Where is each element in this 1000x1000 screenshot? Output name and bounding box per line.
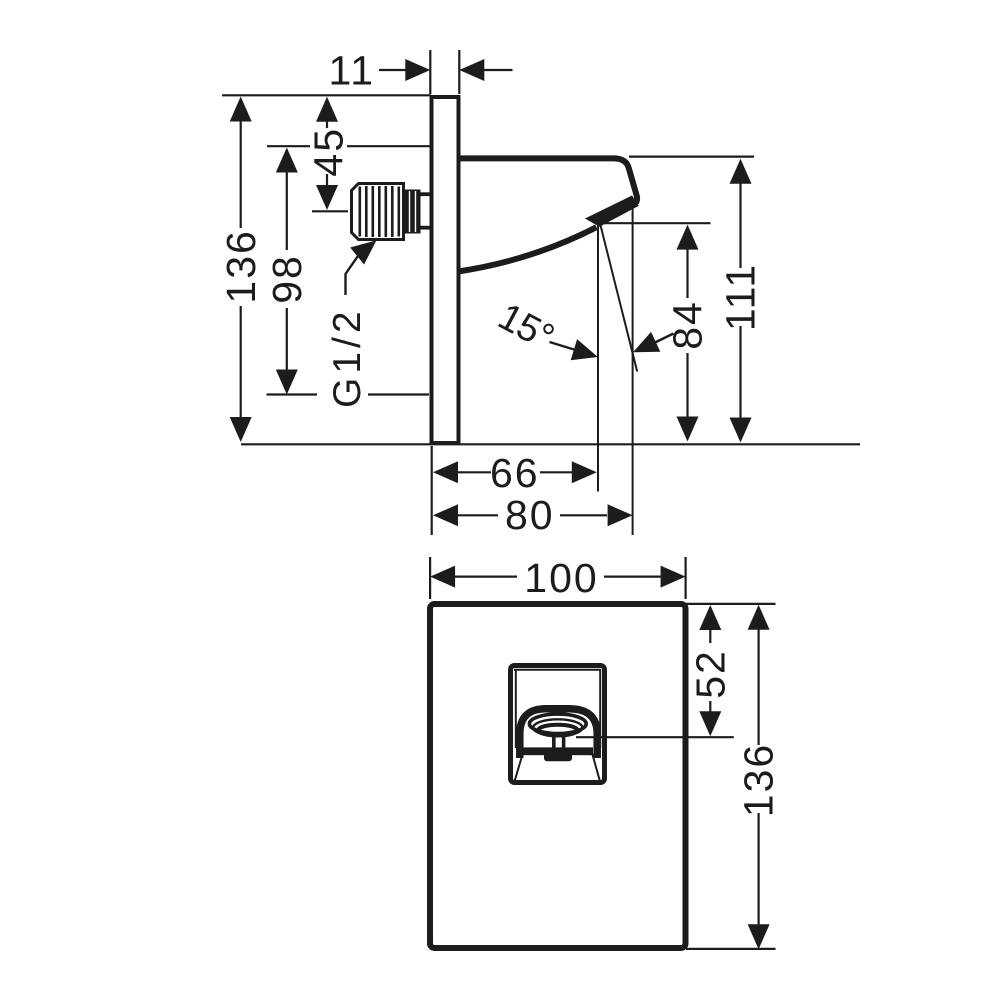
- label 15 degrees with leader arrows: [491, 296, 673, 368]
- spout outlet frame (front view): [511, 666, 605, 783]
- dimension 84: [665, 225, 711, 442]
- spout outlet lip (filled wedge): [585, 196, 639, 227]
- nipple collar: [405, 190, 421, 234]
- bottom extension line right: [686, 948, 776, 950]
- thread lines: [360, 186, 399, 237]
- aerator ellipse outer: [529, 714, 586, 733]
- extension line below plate: [431, 446, 433, 535]
- svg-text:111: 111: [718, 263, 764, 331]
- slanted 15 degree stream line: [600, 225, 637, 372]
- aerator ellipse inner: [538, 725, 577, 736]
- svg-text:52: 52: [687, 649, 733, 699]
- svg-text:15°: 15°: [491, 296, 560, 359]
- svg-text:100: 100: [524, 555, 598, 601]
- svg-text:84: 84: [665, 300, 711, 350]
- water stream vertical line right: [632, 206, 634, 535]
- water stream vertical line left: [597, 226, 599, 492]
- extension line for 111: [629, 156, 754, 158]
- nipple mounting nubs: [421, 192, 430, 229]
- dimension 100: [430, 555, 685, 601]
- baseline (wall line bottom): [241, 443, 860, 445]
- spout underside curve: [458, 227, 597, 271]
- dimension 136 (left): [218, 97, 264, 443]
- svg-text:66: 66: [490, 450, 540, 496]
- aerator base bar: [522, 747, 593, 755]
- dimension 136 (right): [736, 605, 782, 949]
- spout body top and front face: [458, 158, 637, 204]
- top reference line: [222, 94, 431, 96]
- inner perspective lines: [514, 670, 601, 783]
- top extension line right: [686, 603, 776, 605]
- dimension 111: [718, 159, 764, 443]
- leader line from outlet centre: [576, 736, 734, 738]
- aerator ellipse middle: [533, 719, 582, 736]
- svg-text:80: 80: [505, 492, 555, 538]
- dimension 45: [305, 97, 351, 212]
- G1/2 label and leader: [326, 232, 384, 408]
- dimension 11 (plate thickness): [329, 48, 513, 94]
- dimension 80: [433, 492, 633, 538]
- svg-text:G1/2: G1/2: [326, 307, 369, 408]
- svg-text:98: 98: [264, 254, 310, 304]
- dimension 98: [264, 146, 431, 394]
- threaded nipple body: [352, 184, 404, 240]
- aerator under tab: [544, 752, 572, 762]
- aerator arch hood: [520, 709, 597, 758]
- aerator neck bars: [552, 736, 565, 749]
- escutcheon plate front view: [430, 604, 686, 948]
- svg-text:11: 11: [329, 48, 376, 94]
- extension line for 84: [604, 222, 711, 224]
- svg-text:136: 136: [736, 743, 782, 817]
- svg-text:45: 45: [305, 127, 351, 177]
- dimension 66: [433, 450, 597, 496]
- wall plate (side view): [432, 97, 459, 443]
- svg-text:136: 136: [218, 229, 264, 303]
- dimension 52: [687, 605, 733, 736]
